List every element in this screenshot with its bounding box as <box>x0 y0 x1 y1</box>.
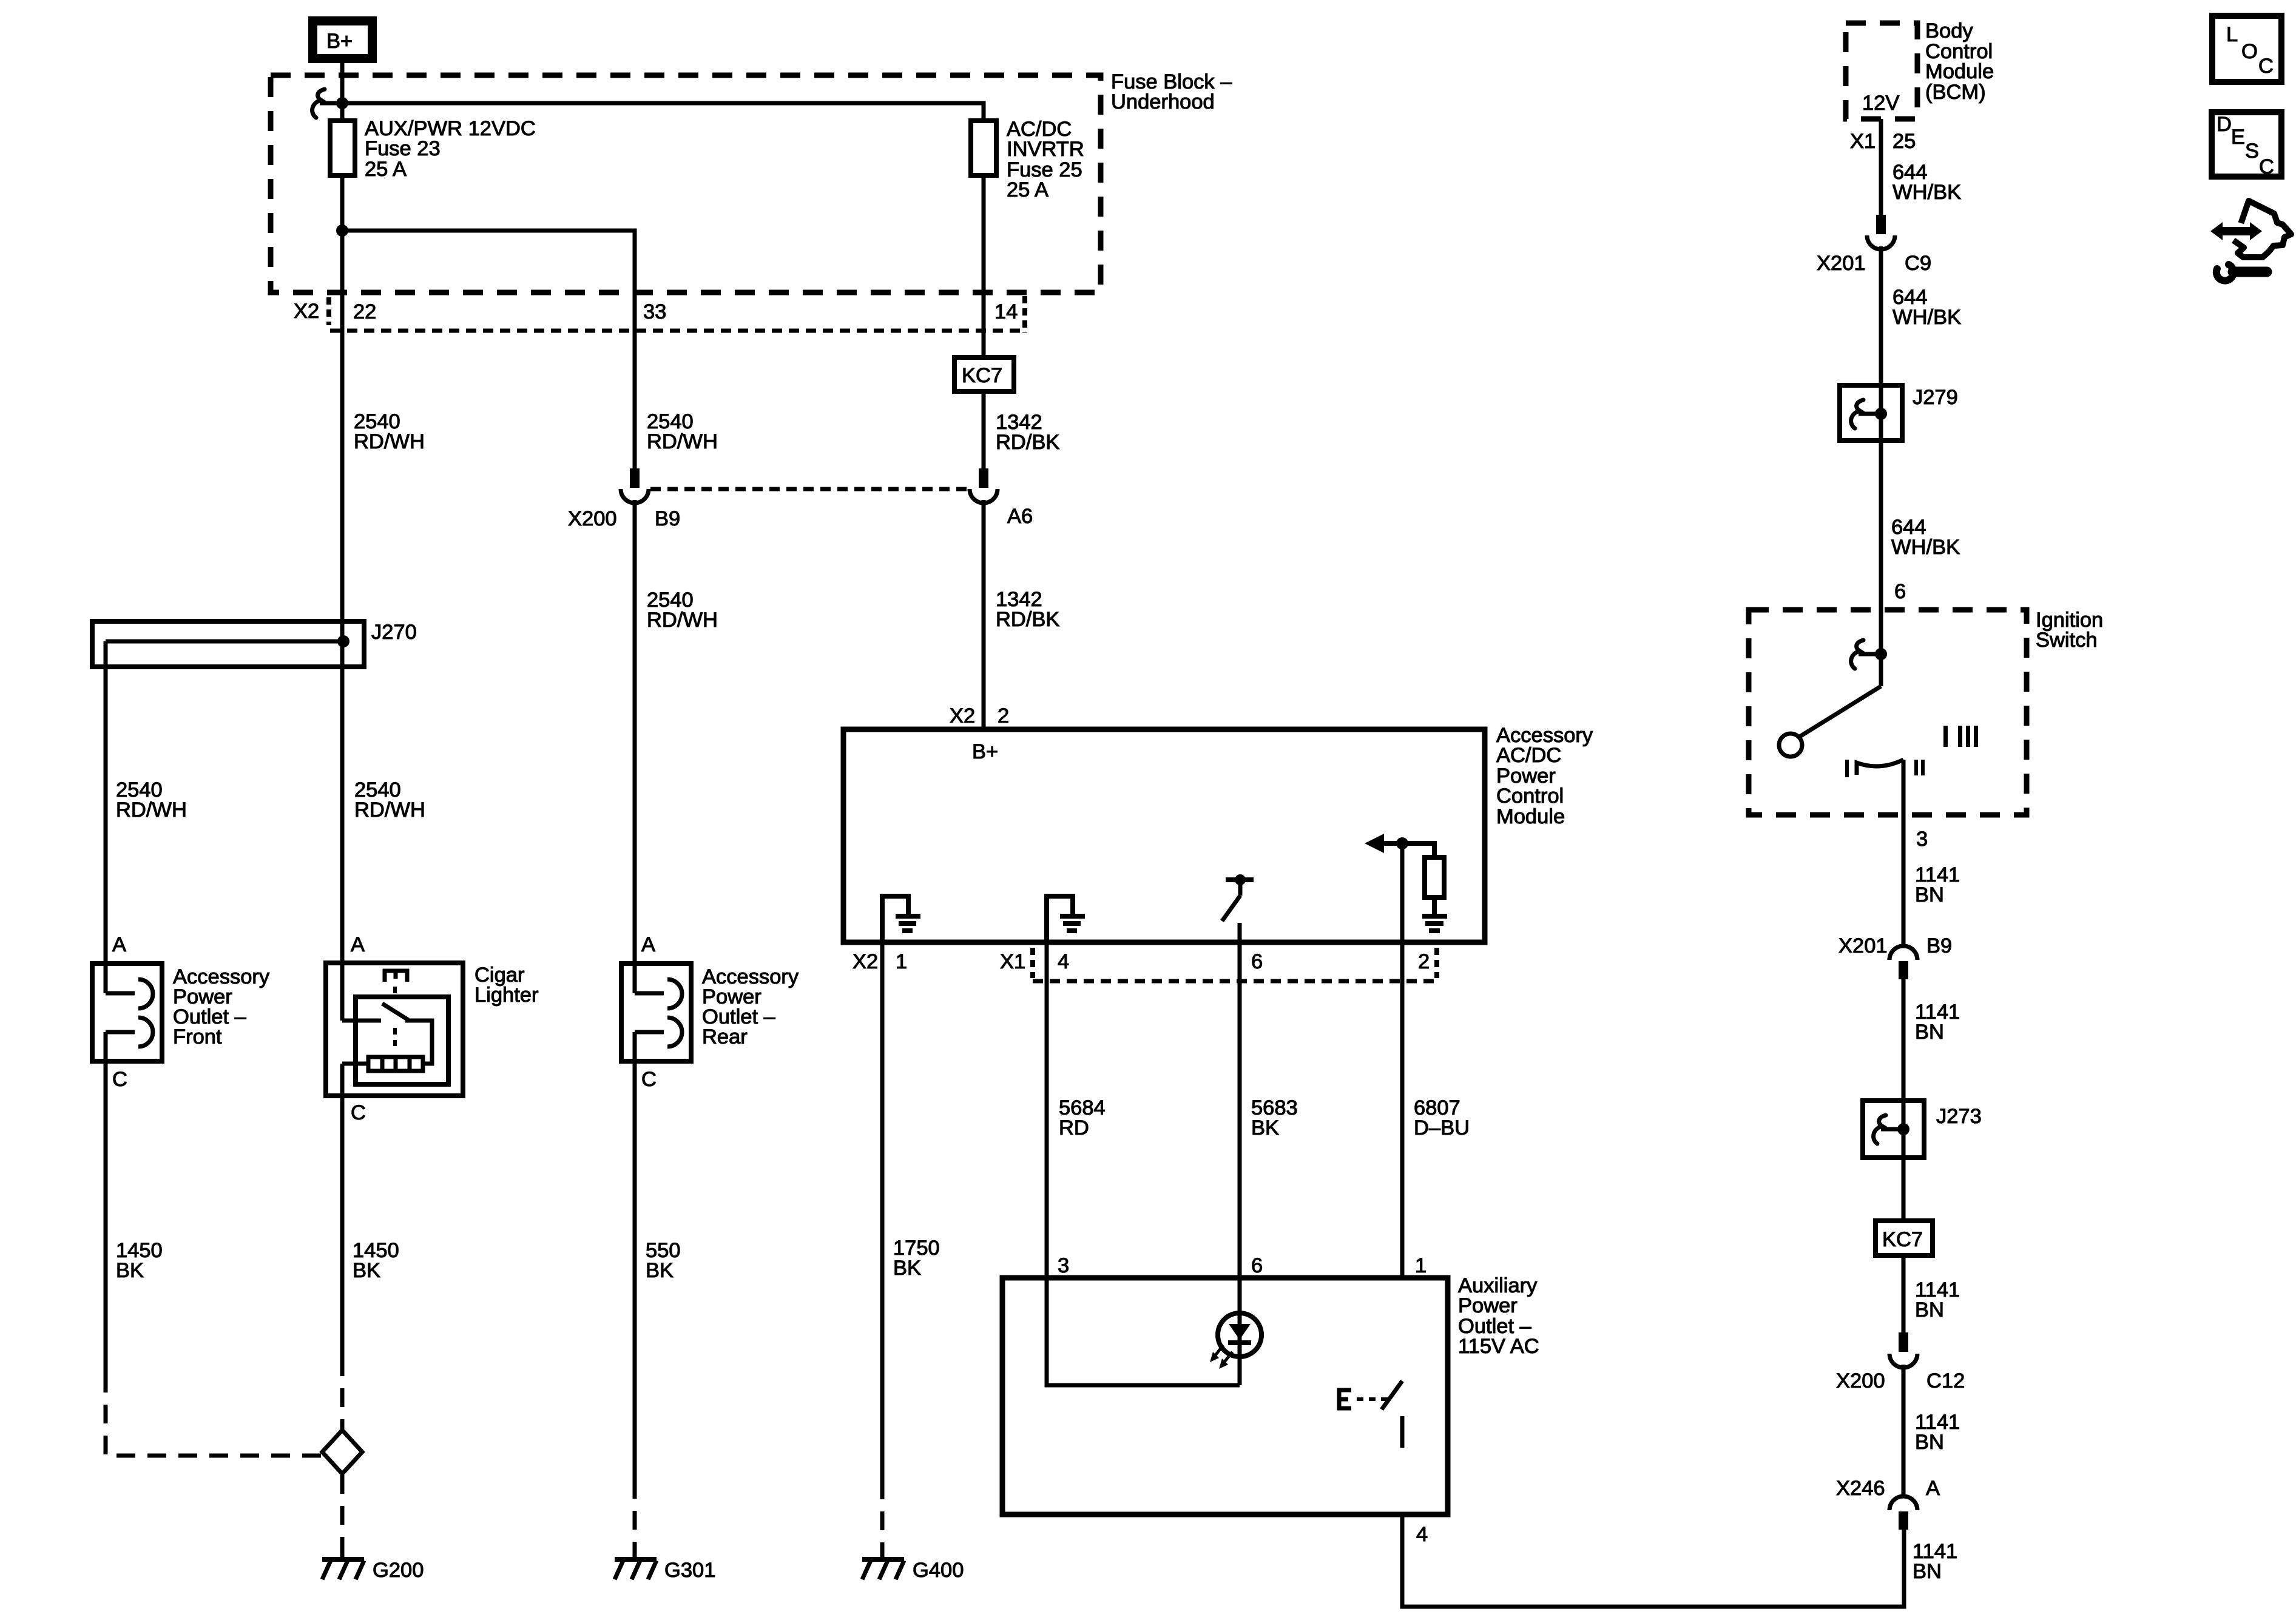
wire B+ to Fuse 23 <box>340 63 345 123</box>
svg-text:WH/BK: WH/BK <box>1891 536 1960 559</box>
label Body Control Module BCM <box>1925 19 1994 104</box>
label J279 <box>1913 386 1958 409</box>
svg-text:B+: B+ <box>326 30 353 53</box>
wire module pin 6 to outlet pin 6 <box>1238 942 1242 1278</box>
wire ignition pin 3 <box>1902 760 1906 946</box>
svg-text:G400: G400 <box>913 1559 964 1582</box>
svg-text:Front: Front <box>173 1025 222 1048</box>
connector X201 terminal C9 <box>1817 215 1931 275</box>
svg-text:X2: X2 <box>950 704 975 727</box>
label Fuse 23 <box>365 117 536 181</box>
svg-text:J273: J273 <box>1936 1105 1982 1128</box>
label 2540 RD/WH left branch <box>116 778 187 822</box>
label 5684 RD <box>1059 1096 1106 1139</box>
label 1141 BN e <box>1913 1540 1957 1583</box>
svg-text:1: 1 <box>1415 1254 1427 1277</box>
svg-text:14: 14 <box>994 300 1018 323</box>
svg-text:X201: X201 <box>1817 252 1866 275</box>
svg-text:(BCM): (BCM) <box>1925 81 1986 104</box>
wire KC7 to connector A6 <box>982 391 986 468</box>
svg-text:D: D <box>2217 113 2232 136</box>
svg-text:Rear: Rear <box>702 1025 748 1048</box>
label 2540 RD/WH cigar branch <box>354 778 425 822</box>
accessory power outlet - front <box>92 964 162 1061</box>
junction dot J270 <box>337 635 349 647</box>
svg-text:B9: B9 <box>655 507 680 530</box>
svg-text:6: 6 <box>1251 1254 1263 1277</box>
splice diamond G200 feed <box>322 1430 362 1474</box>
pin 6 ignition switch <box>1894 580 1906 603</box>
node B+ battery feed <box>313 21 373 59</box>
svg-text:C12: C12 <box>1926 1369 1965 1393</box>
dashed wire to G301 <box>633 1480 637 1551</box>
internal resistor module <box>1425 857 1444 914</box>
svg-text:A: A <box>641 933 655 956</box>
dashed connector tie line X200 <box>650 487 968 491</box>
fuse block - underhood dashed box <box>271 75 1101 292</box>
wire branch to pin 33 <box>342 231 635 470</box>
svg-text:X201: X201 <box>1838 934 1888 957</box>
svg-text:X200: X200 <box>568 507 617 530</box>
LED emission arrows <box>1210 1345 1232 1369</box>
connector terminal A6 <box>970 468 1033 528</box>
pin X2-1 label <box>853 950 907 973</box>
fuse F25 AC/DC INVRTR 25A <box>971 121 996 175</box>
svg-text:BN: BN <box>1913 1560 1942 1583</box>
svg-text:1: 1 <box>896 950 907 973</box>
svg-text:Module: Module <box>1496 805 1565 828</box>
splice clip ignition input <box>1851 640 1887 669</box>
svg-text:Module: Module <box>1925 60 1994 83</box>
svg-text:G200: G200 <box>373 1559 424 1582</box>
pin X1-4 label <box>1000 948 1069 978</box>
pin X1-25 BCM <box>1850 130 1916 153</box>
wire module X2-1 to G400 1750 BK <box>880 942 885 1480</box>
svg-text:RD/WH: RD/WH <box>354 798 425 822</box>
wire 2540 RD/WH label col22 <box>354 410 425 453</box>
pin X2-2 module top <box>950 704 1009 727</box>
label 6807 D-BU <box>1414 1096 1470 1139</box>
ignition switch dashed box <box>1749 610 2027 815</box>
label 644 WH/BK lower <box>1891 516 1960 559</box>
connector X200 terminal C12 <box>1836 1332 1965 1393</box>
label Accessory AC/DC Power Control Module <box>1496 724 1593 828</box>
dashed connector row X1 <box>1033 979 1437 984</box>
legend arrow and wrench icon <box>2210 201 2291 281</box>
svg-text:BK: BK <box>646 1259 674 1282</box>
svg-text:X200: X200 <box>1836 1369 1885 1393</box>
svg-text:25: 25 <box>1893 130 1916 153</box>
pin C accessory power outlet rear <box>641 1068 657 1091</box>
junction dot pin 2 <box>1396 837 1408 849</box>
splice bus J270 <box>92 621 364 667</box>
LED indicator aux outlet <box>1218 1313 1261 1357</box>
ground G400 <box>862 1547 964 1582</box>
splice J279 <box>1840 385 1902 441</box>
internal ground module pin X1-4 <box>1047 896 1085 942</box>
wire module X1-4 to outlet pin 3 <box>1045 942 1049 1278</box>
label 1141 BN a <box>1915 863 1960 906</box>
node B+ inside module <box>972 740 998 763</box>
svg-text:3: 3 <box>1058 1254 1069 1277</box>
label 644 WH/BK mid <box>1893 286 1961 329</box>
svg-text:INVRTR: INVRTR <box>1007 138 1084 161</box>
svg-text:X2: X2 <box>853 950 878 973</box>
svg-text:BN: BN <box>1915 1431 1944 1454</box>
svg-text:25 A: 25 A <box>1007 178 1048 201</box>
wire pin 3 internal <box>1047 1278 1240 1385</box>
svg-text:B9: B9 <box>1926 934 1952 957</box>
label 1141 BN d <box>1915 1411 1960 1454</box>
splice clip at B+ junction <box>312 89 342 118</box>
svg-text:C9: C9 <box>1905 252 1931 275</box>
connector X201 terminal B9 <box>1838 934 1952 979</box>
wire KC7 to X200-C12 <box>1902 1255 1906 1332</box>
svg-text:BK: BK <box>893 1257 921 1280</box>
auxiliary power outlet 115V AC box <box>1002 1278 1448 1514</box>
label 644 WH/BK upper <box>1893 161 1961 204</box>
connector X246 terminal A <box>1836 1477 1940 1530</box>
ignition position marks I III <box>1943 726 1978 747</box>
label 550 BK <box>646 1239 681 1282</box>
wire 1342 below A6 <box>982 500 986 729</box>
wire outlet pin 4 to X246 <box>1402 1514 1904 1607</box>
label J270 <box>371 621 417 644</box>
svg-text:6: 6 <box>1251 950 1263 973</box>
dashed wire cigar to diamond <box>340 1357 345 1429</box>
dashed wire diamond to G200 <box>340 1475 345 1551</box>
label 1450 BK cigar <box>353 1239 399 1282</box>
label 1342 RD/BK below A6 <box>996 588 1059 631</box>
svg-text:BK: BK <box>1251 1116 1279 1139</box>
ground G200 <box>322 1547 424 1582</box>
dashed wire to splice diamond left <box>106 1374 323 1456</box>
legend DESC box <box>2212 112 2281 178</box>
wire C9 to ignition switch 644 <box>1879 246 1883 686</box>
svg-text:C: C <box>112 1068 127 1091</box>
ignition contact arc I II <box>1845 760 1925 777</box>
label 1141 BN b <box>1915 1001 1960 1044</box>
svg-text:RD/WH: RD/WH <box>354 430 425 453</box>
label Ignition Switch <box>2036 609 2103 652</box>
svg-text:KC7: KC7 <box>1882 1228 1923 1251</box>
ignition switch pivot circle <box>1779 734 1802 757</box>
wire fuse 25 output pin 14 <box>982 175 986 357</box>
svg-text:X1: X1 <box>1850 130 1876 153</box>
label Accessory Power Outlet Rear <box>702 965 799 1048</box>
pin 1 label aux outlet <box>1415 1254 1427 1277</box>
svg-text:E: E <box>2231 126 2245 149</box>
svg-text:AC/DC: AC/DC <box>1496 744 1561 767</box>
svg-text:A: A <box>1926 1477 1940 1500</box>
label 12V inside BCM <box>1862 92 1899 115</box>
junction dot fuse 23 branch <box>336 224 348 237</box>
switch blade aux outlet <box>1382 1381 1402 1448</box>
ignition switch blade <box>1800 686 1881 737</box>
svg-text:C: C <box>641 1068 657 1091</box>
svg-text:X1: X1 <box>1000 950 1025 973</box>
svg-text:25 A: 25 A <box>365 158 407 181</box>
junction dot B+ bus <box>336 97 348 109</box>
pin 3 label ignition <box>1916 828 1928 851</box>
svg-text:G301: G301 <box>664 1559 715 1582</box>
svg-text:D–BU: D–BU <box>1414 1116 1470 1139</box>
svg-text:S: S <box>2245 140 2259 163</box>
internal driver arrow module pin 2 <box>1365 834 1434 857</box>
wire B9 to KC7 1141 <box>1902 979 1906 1221</box>
svg-text:C: C <box>351 1101 366 1124</box>
pin 6 label aux outlet <box>1251 1254 1263 1277</box>
svg-text:C: C <box>2259 155 2274 178</box>
legend LOC box <box>2212 16 2281 82</box>
svg-text:O: O <box>2241 40 2258 63</box>
label Auxiliary Power Outlet 115V AC <box>1458 1274 1539 1358</box>
cigar lighter <box>326 963 463 1096</box>
svg-text:L: L <box>2226 23 2238 46</box>
wire module pin 2 to outlet pin 1 <box>1400 843 1405 1278</box>
pin 3 label aux outlet <box>1058 1254 1069 1277</box>
inline connector KC7 on circuit 1342 <box>954 357 1014 391</box>
svg-text:BN: BN <box>1915 883 1944 906</box>
svg-text:RD/WH: RD/WH <box>647 430 718 453</box>
label 1450 BK left <box>116 1239 163 1282</box>
wire fuse 23 output <box>340 175 345 1021</box>
svg-text:BN: BN <box>1915 1021 1944 1044</box>
label 1141 BN c <box>1915 1278 1960 1322</box>
label Cigar Lighter <box>474 964 539 1007</box>
svg-text:BN: BN <box>1915 1298 1944 1322</box>
svg-text:2: 2 <box>1418 950 1430 973</box>
internal ground module pin X2-1 <box>882 896 920 942</box>
svg-text:RD/WH: RD/WH <box>116 798 187 822</box>
svg-text:RD/BK: RD/BK <box>996 431 1059 454</box>
internal switch module pin 6 <box>1222 874 1254 942</box>
svg-text:115V AC: 115V AC <box>1458 1335 1539 1358</box>
connector X200 terminal B9 <box>568 468 680 530</box>
label Fuse 25 <box>1007 118 1084 201</box>
label 1750 BK <box>893 1237 940 1280</box>
pin 6 label <box>1251 950 1263 973</box>
wire BCM to X201-C9 <box>1879 119 1883 216</box>
svg-text:WH/BK: WH/BK <box>1893 181 1961 204</box>
switch symbol E aux outlet <box>1339 1390 1391 1408</box>
svg-text:33: 33 <box>643 300 666 323</box>
accessory power outlet - rear <box>621 964 691 1061</box>
svg-text:RD/BK: RD/BK <box>996 608 1059 631</box>
svg-text:12V: 12V <box>1862 92 1899 115</box>
svg-text:4: 4 <box>1416 1523 1428 1546</box>
pin 4 label aux outlet <box>1416 1523 1428 1546</box>
label Accessory Power Outlet Front <box>173 965 270 1048</box>
fuse F23 AUX/PWR 12VDC 25A <box>330 121 355 175</box>
svg-text:A6: A6 <box>1007 505 1033 528</box>
inline connector KC7 on circuit 1141 <box>1876 1221 1933 1255</box>
wire C12 to X246 <box>1902 1365 1906 1496</box>
wire 2540 RD/WH label col33 <box>647 410 718 453</box>
body control module BCM dashed box <box>1846 23 1917 119</box>
accessory AC/DC power control module box <box>843 729 1485 942</box>
svg-text:Fuse 23: Fuse 23 <box>365 137 441 160</box>
svg-text:X2: X2 <box>294 300 319 323</box>
label 2540 RD/WH below B9 <box>647 589 718 632</box>
svg-text:RD/WH: RD/WH <box>647 609 718 632</box>
wire pin 6 internal <box>1238 1278 1242 1385</box>
svg-text:2: 2 <box>998 704 1009 727</box>
label J273 <box>1936 1105 1982 1128</box>
label Fuse Block - Underhood <box>1111 70 1232 113</box>
svg-text:Control: Control <box>1496 785 1564 808</box>
wire 2540 below B9 <box>633 500 637 993</box>
svg-text:B+: B+ <box>972 740 998 763</box>
pin C accessory power outlet front <box>112 1068 127 1091</box>
svg-text:6: 6 <box>1894 580 1906 603</box>
svg-text:A: A <box>351 933 365 956</box>
ground G301 <box>615 1547 715 1582</box>
svg-text:X246: X246 <box>1836 1477 1885 1500</box>
pin A cigar lighter <box>351 933 365 956</box>
svg-text:22: 22 <box>353 300 376 323</box>
dashed wire to G400 <box>880 1480 885 1551</box>
wire rear outlet to ground 550 BK <box>633 1032 637 1480</box>
svg-text:3: 3 <box>1916 828 1928 851</box>
pin 2 label <box>1418 948 1437 978</box>
svg-text:KC7: KC7 <box>962 364 1002 387</box>
label 5683 BK <box>1251 1096 1298 1139</box>
splice J273 <box>1863 1101 1924 1158</box>
pin A accessory power outlet front <box>112 933 126 956</box>
svg-text:J270: J270 <box>371 621 417 644</box>
connector X2 fuse block pin row <box>294 296 1025 333</box>
svg-text:WH/BK: WH/BK <box>1893 306 1961 329</box>
svg-text:BK: BK <box>353 1259 380 1282</box>
pin A accessory power outlet rear <box>641 933 655 956</box>
wire front outlet to ground 1450 BK <box>104 1032 108 1374</box>
svg-text:4: 4 <box>1058 950 1069 973</box>
svg-text:Lighter: Lighter <box>474 984 539 1007</box>
wire J270 left branch 2540 <box>104 641 108 993</box>
svg-text:RD: RD <box>1059 1116 1089 1139</box>
svg-text:Underhood: Underhood <box>1111 90 1215 113</box>
svg-text:Switch: Switch <box>2036 629 2098 652</box>
svg-text:C: C <box>2258 55 2274 78</box>
wire 1342 RD/BK label col14 <box>996 411 1059 454</box>
svg-text:BK: BK <box>116 1259 144 1282</box>
svg-text:Power: Power <box>1458 1294 1518 1317</box>
pin C cigar lighter <box>351 1101 366 1124</box>
wire bus to Fuse 25 <box>342 103 984 123</box>
internal ground resistor <box>1422 916 1447 931</box>
svg-text:J279: J279 <box>1913 386 1958 409</box>
svg-text:Body: Body <box>1925 19 1973 42</box>
wire cigar lighter to ground 1450 BK <box>340 1064 345 1357</box>
svg-text:A: A <box>112 933 126 956</box>
